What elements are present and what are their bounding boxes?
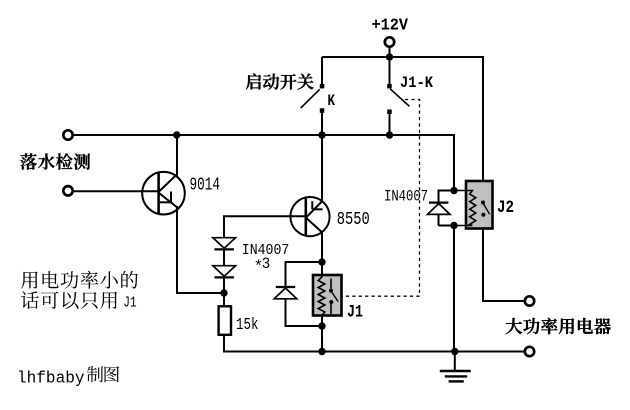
svg-text:J1: J1 — [347, 302, 363, 322]
svg-text:J1: J1 — [123, 295, 137, 312]
svg-text:15k: 15k — [236, 315, 259, 334]
svg-text:8550: 8550 — [337, 210, 370, 230]
svg-text:IN4007: IN4007 — [384, 187, 428, 205]
svg-text:K: K — [328, 92, 336, 110]
svg-text:3: 3 — [262, 255, 271, 273]
svg-text:+12V: +12V — [372, 17, 409, 36]
svg-text:J1-K: J1-K — [400, 74, 433, 92]
svg-text:lhfbaby: lhfbaby — [17, 369, 85, 388]
svg-text:J2: J2 — [497, 198, 514, 218]
svg-text:9014: 9014 — [190, 175, 221, 195]
